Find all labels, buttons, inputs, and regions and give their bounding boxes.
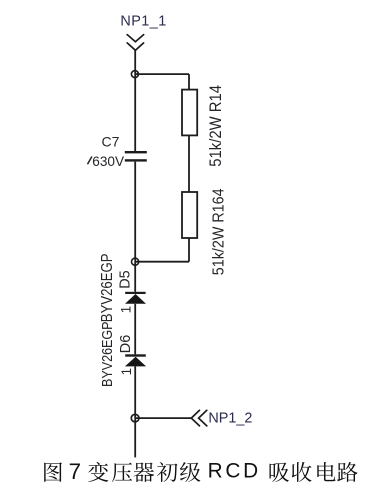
caption char 路 bbox=[337, 462, 357, 482]
caption char 器 bbox=[134, 462, 155, 482]
diode D5 triangle bbox=[125, 294, 146, 304]
diode D6 cathode bar bbox=[125, 354, 146, 356]
caption char 电 bbox=[317, 462, 335, 481]
wire: node A down to C7 top plate bbox=[134, 74, 136, 151]
svg-text:51k/2W R164: 51k/2W R164 bbox=[210, 188, 228, 275]
svg-text:51k/2W R14: 51k/2W R14 bbox=[207, 85, 225, 167]
wire: corner down to R14 top bbox=[188, 74, 190, 90]
svg-text:D6: D6 bbox=[118, 335, 134, 353]
diode D5 cathode bar bbox=[125, 292, 145, 294]
wire: port NP1_1 down to node A bbox=[134, 50, 136, 74]
wire: R14 bottom to R164 top bbox=[188, 135, 190, 192]
svg-text:630V: 630V bbox=[92, 154, 124, 169]
node B junction bbox=[132, 258, 139, 265]
diode D6 triangle bbox=[125, 357, 146, 367]
wire: node C right to port NP1_2 bbox=[135, 417, 191, 419]
wire: R164 bottom down to corner bbox=[188, 238, 190, 262]
wire: D5 anode down to D6 cathode bbox=[134, 304, 136, 355]
svg-text:RCD: RCD bbox=[208, 460, 261, 483]
resistor R164 body bbox=[182, 192, 197, 238]
svg-text:7: 7 bbox=[69, 459, 81, 484]
wire: node C down to bottom end bbox=[134, 418, 136, 457]
wire: corner left to node B bbox=[135, 261, 189, 263]
wire: node B down to D5 cathode bbox=[134, 262, 136, 292]
wire: D6 anode down to node C bbox=[134, 366, 136, 418]
svg-text:NP1_2: NP1_2 bbox=[208, 411, 252, 427]
port symbol NP1_1 (double chevron pointing down) bbox=[127, 35, 143, 51]
label 630V tick mark bbox=[88, 157, 92, 165]
caption char 变 bbox=[88, 462, 108, 482]
svg-text:BYV26EGP: BYV26EGP bbox=[99, 321, 115, 387]
caption char 收 bbox=[292, 462, 312, 482]
caption char 级 bbox=[180, 462, 200, 482]
node C junction bbox=[131, 414, 139, 422]
resistor R14 body bbox=[182, 90, 197, 136]
capacitor C7 bottom plate bbox=[125, 159, 147, 161]
capacitor C7 top plate bbox=[125, 151, 147, 153]
wire: node A to right branch corner bbox=[135, 73, 189, 75]
svg-text:1: 1 bbox=[119, 306, 134, 313]
svg-text:1: 1 bbox=[119, 368, 134, 375]
port symbol NP1_2 (double chevron pointing left) bbox=[191, 410, 207, 426]
svg-text:C7: C7 bbox=[102, 134, 120, 150]
wire: C7 bottom plate down to node B bbox=[134, 162, 136, 262]
svg-text:NP1_1: NP1_1 bbox=[120, 13, 166, 29]
caption char 初 bbox=[157, 462, 178, 482]
caption char 吸 bbox=[270, 463, 289, 482]
svg-text:D5: D5 bbox=[117, 270, 133, 288]
svg-text:BYV26EGP: BYV26EGP bbox=[99, 254, 116, 323]
caption char 压 bbox=[112, 463, 132, 482]
caption char 图 bbox=[44, 462, 62, 482]
node A junction bbox=[131, 71, 138, 78]
